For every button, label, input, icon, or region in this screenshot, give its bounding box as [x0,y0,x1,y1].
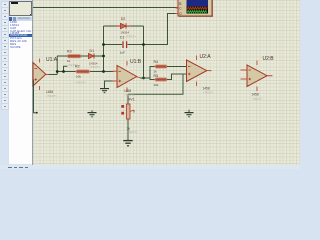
resistor R5 [155,78,167,81]
svg-text:U1:A: U1:A [46,57,58,63]
op-amp U1:A [33,59,49,91]
capacitor C1 [123,41,127,48]
svg-text:C1: C1 [120,35,125,39]
svg-text:U2:A: U2:A [200,54,212,60]
svg-text:D2: D2 [121,17,126,21]
svg-text:R3: R3 [67,49,72,53]
svg-text:D1: D1 [90,49,95,53]
junction D1 cathode node [102,55,105,58]
junction C1 branch right / scope tap [142,43,145,46]
svg-text:10k: 10k [154,83,159,87]
svg-text:<TEXT>: <TEXT> [124,93,135,97]
svg-text:1uF: 1uF [120,50,125,54]
svg-text:1k: 1k [154,69,158,73]
svg-text:U2:B: U2:B [263,56,275,62]
svg-text:U1:B: U1:B [130,59,142,65]
panel splitter [32,0,34,165]
svg-text:RV1: RV1 [128,97,135,101]
junction C1 branch left [102,43,105,46]
resistor R3 [68,55,82,58]
wire C1 branch [104,44,144,46]
svg-text:<TEXT>: <TEXT> [203,91,214,95]
wire R4 to U2:A - input [167,66,187,68]
ground under U1:B [100,85,109,93]
svg-text:<TEXT>: <TEXT> [252,97,263,101]
wire branch to R5 [150,78,155,80]
wire stub at node [64,66,68,71]
wire U1:A output [49,56,58,75]
op-amp U2:A [187,56,212,87]
device list [9,21,32,164]
op-amp U1:B [113,61,141,92]
wire R5 jog to + input [167,74,187,80]
schematic sheet [33,0,300,165]
wire main line to R2 and U1:B [57,71,113,73]
resistor R4 [155,65,167,68]
overview window [9,1,32,16]
svg-text:<TEXT>: <TEXT> [127,130,138,134]
wire scope channel D L-shape [144,14,178,45]
wire branch to R4 [150,67,155,79]
svg-text:<TEXT>: <TEXT> [67,63,78,67]
object selector header [9,17,32,22]
svg-text:<TEXT>: <TEXT> [125,35,136,39]
free ground left [88,110,97,117]
junction U1:A output node [56,70,59,73]
wire D2 branch top [104,25,144,27]
ground under U2:A [185,110,194,117]
svg-text:<TEXT>: <TEXT> [75,81,86,85]
wire RV1 to U2:A + input [128,74,183,94]
wire U1:A + input down [34,80,37,113]
resistor R2 [76,70,90,73]
wire feedback loop left vertical [103,26,105,72]
svg-text:<TEXT>: <TEXT> [89,65,100,69]
svg-text:B: B [179,2,181,6]
oscilloscope [176,0,214,17]
wire R3-D1 line [57,55,104,57]
junction R2 branch node [62,70,65,73]
status bar [0,165,300,169]
diode D1 [89,53,95,58]
diode D2 [116,23,131,28]
ground under RV1 [123,141,132,146]
wire scope channel C horizontal [33,7,178,9]
junction U1:B inverting input node [102,70,105,73]
wire U1:B + input to ground [105,81,113,85]
potentiometer RV1 [121,94,134,140]
junction U1:B output node [142,77,145,80]
svg-text:R5: R5 [154,74,159,78]
svg-text:R4: R4 [154,60,159,64]
svg-text:10k: 10k [76,74,81,78]
wire U1:B output [140,77,150,79]
svg-text:<TEXT>: <TEXT> [46,94,57,98]
wire end stub [36,112,38,114]
left toolbar [0,0,9,165]
op-amp U2:B [241,61,273,92]
wire feedback loop right vertical [143,26,145,78]
